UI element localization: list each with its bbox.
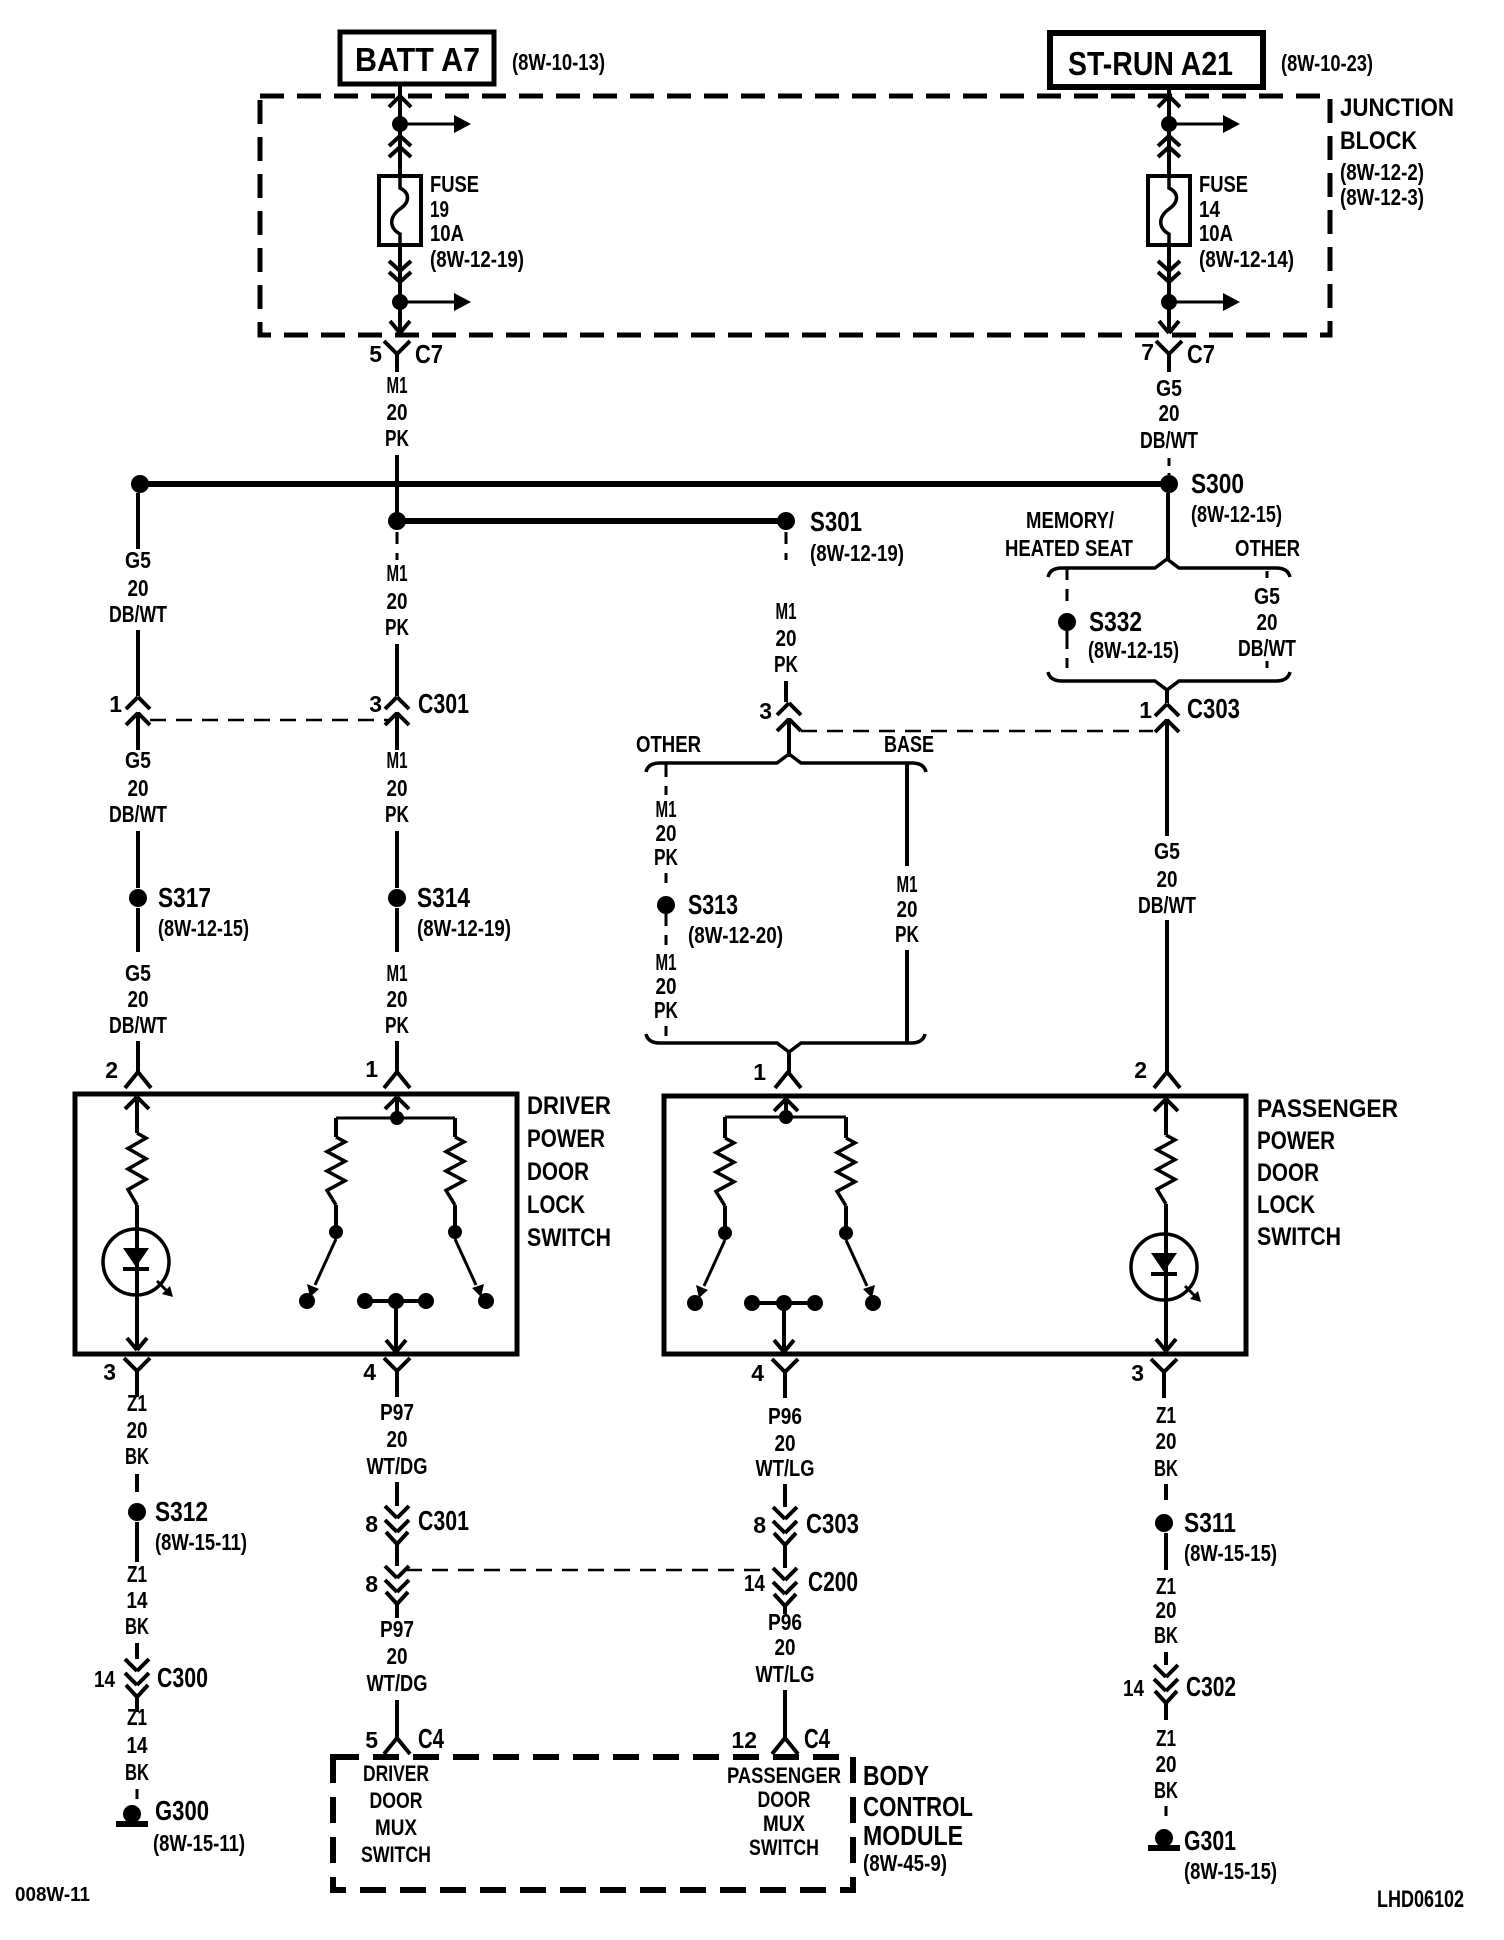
svg-text:G5: G5 — [1254, 583, 1280, 609]
svg-text:(8W-12-19): (8W-12-19) — [810, 540, 904, 566]
svg-text:BK: BK — [125, 1759, 149, 1785]
svg-text:(8W-12-15): (8W-12-15) — [1088, 637, 1179, 663]
svg-text:BODY: BODY — [863, 1760, 929, 1791]
svg-text:C302: C302 — [1186, 1671, 1236, 1702]
svg-text:CONTROL: CONTROL — [863, 1791, 973, 1822]
svg-text:P96: P96 — [768, 1609, 802, 1635]
svg-text:M1: M1 — [387, 747, 408, 773]
svg-text:BATT A7: BATT A7 — [355, 41, 480, 78]
svg-text:20: 20 — [897, 896, 918, 922]
svg-text:8: 8 — [365, 1511, 378, 1537]
svg-text:20: 20 — [128, 775, 149, 801]
svg-text:2: 2 — [105, 1057, 118, 1083]
svg-text:Z1: Z1 — [127, 1561, 147, 1587]
svg-text:Z1: Z1 — [1156, 1573, 1176, 1599]
svg-text:BK: BK — [1154, 1622, 1178, 1648]
svg-text:Z1: Z1 — [127, 1704, 147, 1730]
svg-text:(8W-12-20): (8W-12-20) — [688, 922, 783, 948]
svg-text:14: 14 — [1199, 196, 1220, 222]
svg-text:S312: S312 — [155, 1496, 208, 1527]
svg-text:M1: M1 — [656, 949, 677, 975]
svg-text:2: 2 — [1134, 1057, 1147, 1083]
svg-text:PASSENGER: PASSENGER — [1257, 1095, 1398, 1123]
svg-text:SWITCH: SWITCH — [361, 1842, 431, 1867]
svg-text:14: 14 — [744, 1570, 765, 1596]
svg-text:10A: 10A — [1199, 220, 1233, 246]
svg-text:M1: M1 — [897, 871, 918, 897]
svg-text:4: 4 — [363, 1359, 376, 1385]
svg-text:DOOR: DOOR — [527, 1158, 589, 1186]
svg-text:PK: PK — [385, 425, 409, 451]
svg-text:WT/LG: WT/LG — [756, 1661, 815, 1687]
svg-text:(8W-15-11): (8W-15-11) — [155, 1529, 247, 1555]
svg-text:G5: G5 — [1156, 375, 1182, 401]
svg-text:PK: PK — [654, 997, 678, 1023]
svg-text:LHD06102: LHD06102 — [1377, 1886, 1464, 1913]
svg-text:S332: S332 — [1089, 606, 1142, 637]
svg-text:20: 20 — [776, 625, 797, 651]
svg-text:OTHER: OTHER — [1235, 535, 1300, 561]
svg-text:20: 20 — [775, 1634, 796, 1660]
svg-text:BK: BK — [1154, 1777, 1178, 1803]
svg-text:20: 20 — [1156, 1597, 1177, 1623]
svg-text:C301: C301 — [418, 1505, 469, 1536]
svg-text:C301: C301 — [418, 688, 469, 719]
svg-text:S317: S317 — [158, 882, 211, 913]
svg-text:Z1: Z1 — [1156, 1725, 1176, 1751]
svg-text:3: 3 — [369, 691, 382, 717]
svg-text:C303: C303 — [806, 1508, 859, 1539]
svg-text:MEMORY/: MEMORY/ — [1026, 507, 1114, 533]
svg-text:SWITCH: SWITCH — [527, 1224, 611, 1252]
svg-text:12: 12 — [731, 1727, 757, 1753]
svg-text:20: 20 — [656, 973, 677, 999]
svg-text:BASE: BASE — [884, 731, 934, 757]
svg-text:1: 1 — [753, 1059, 766, 1085]
svg-text:G5: G5 — [1154, 838, 1180, 864]
svg-text:8: 8 — [365, 1571, 378, 1597]
svg-text:DB/WT: DB/WT — [1238, 635, 1296, 661]
svg-text:PK: PK — [385, 1012, 409, 1038]
svg-text:Z1: Z1 — [127, 1390, 147, 1416]
svg-text:8: 8 — [753, 1512, 766, 1538]
svg-text:BLOCK: BLOCK — [1340, 127, 1417, 155]
svg-text:20: 20 — [128, 986, 149, 1012]
svg-text:MODULE: MODULE — [863, 1820, 963, 1851]
svg-text:19: 19 — [430, 196, 449, 222]
svg-text:20: 20 — [387, 1643, 408, 1669]
svg-text:C4: C4 — [418, 1723, 444, 1754]
svg-text:(8W-10-13): (8W-10-13) — [512, 49, 605, 75]
svg-text:JUNCTION: JUNCTION — [1340, 94, 1454, 122]
svg-text:20: 20 — [1156, 1751, 1177, 1777]
svg-text:DB/WT: DB/WT — [1140, 427, 1198, 453]
svg-text:PK: PK — [385, 614, 409, 640]
svg-text:DOOR: DOOR — [758, 1787, 811, 1812]
svg-text:20: 20 — [1156, 1428, 1177, 1454]
svg-text:20: 20 — [387, 1426, 408, 1452]
svg-text:DB/WT: DB/WT — [109, 801, 167, 827]
svg-text:7: 7 — [1141, 339, 1154, 365]
svg-text:G5: G5 — [125, 547, 151, 573]
svg-text:(8W-45-9): (8W-45-9) — [863, 1850, 947, 1876]
svg-text:Z1: Z1 — [1156, 1402, 1176, 1428]
svg-text:C4: C4 — [804, 1723, 830, 1754]
svg-text:20: 20 — [1257, 609, 1278, 635]
svg-text:PK: PK — [385, 801, 409, 827]
svg-text:20: 20 — [775, 1430, 796, 1456]
svg-text:MUX: MUX — [763, 1811, 805, 1836]
svg-text:008W-11: 008W-11 — [15, 1884, 90, 1906]
svg-text:(8W-12-14): (8W-12-14) — [1199, 246, 1294, 272]
svg-text:(8W-12-2): (8W-12-2) — [1340, 159, 1424, 185]
svg-text:20: 20 — [387, 588, 408, 614]
svg-text:C200: C200 — [808, 1566, 858, 1597]
svg-text:(8W-12-3): (8W-12-3) — [1340, 184, 1424, 210]
svg-text:OTHER: OTHER — [636, 731, 701, 757]
svg-text:FUSE: FUSE — [1199, 171, 1248, 197]
svg-text:S313: S313 — [688, 889, 738, 920]
svg-text:(8W-15-15): (8W-15-15) — [1184, 1858, 1277, 1884]
svg-text:C300: C300 — [157, 1662, 208, 1693]
svg-text:P97: P97 — [380, 1616, 414, 1642]
svg-text:1: 1 — [109, 691, 122, 717]
svg-text:ST-RUN A21: ST-RUN A21 — [1068, 45, 1233, 82]
svg-text:DB/WT: DB/WT — [109, 601, 167, 627]
svg-text:(8W-15-15): (8W-15-15) — [1184, 1540, 1277, 1566]
svg-text:C7: C7 — [415, 339, 443, 369]
svg-text:MUX: MUX — [375, 1815, 417, 1840]
svg-text:POWER: POWER — [527, 1125, 605, 1153]
svg-text:LOCK: LOCK — [527, 1191, 585, 1219]
svg-text:LOCK: LOCK — [1257, 1191, 1315, 1219]
svg-text:(8W-12-15): (8W-12-15) — [1191, 501, 1282, 527]
svg-text:HEATED SEAT: HEATED SEAT — [1005, 535, 1133, 561]
svg-text:14: 14 — [127, 1732, 148, 1758]
svg-text:4: 4 — [751, 1360, 764, 1386]
svg-text:M1: M1 — [656, 796, 677, 822]
svg-text:SWITCH: SWITCH — [1257, 1223, 1341, 1251]
svg-text:10A: 10A — [430, 220, 464, 246]
svg-text:M1: M1 — [776, 598, 797, 624]
svg-text:M1: M1 — [387, 560, 408, 586]
svg-text:PASSENGER: PASSENGER — [727, 1763, 841, 1788]
svg-text:14: 14 — [1123, 1675, 1144, 1701]
svg-text:SWITCH: SWITCH — [749, 1835, 819, 1860]
svg-text:PK: PK — [654, 844, 678, 870]
svg-text:(8W-12-15): (8W-12-15) — [158, 915, 249, 941]
svg-text:20: 20 — [387, 986, 408, 1012]
svg-text:20: 20 — [656, 820, 677, 846]
svg-text:G300: G300 — [155, 1795, 209, 1826]
svg-text:S300: S300 — [1191, 468, 1244, 499]
svg-text:G5: G5 — [125, 960, 151, 986]
svg-text:1: 1 — [365, 1056, 378, 1082]
svg-text:5: 5 — [369, 341, 382, 367]
svg-text:S311: S311 — [1184, 1507, 1236, 1538]
svg-text:20: 20 — [1157, 866, 1178, 892]
svg-text:3: 3 — [1131, 1360, 1144, 1386]
svg-text:3: 3 — [759, 698, 772, 724]
svg-text:14: 14 — [94, 1666, 115, 1692]
svg-text:M1: M1 — [387, 960, 408, 986]
svg-text:DB/WT: DB/WT — [109, 1012, 167, 1038]
svg-text:DRIVER: DRIVER — [363, 1761, 429, 1786]
svg-text:S301: S301 — [810, 506, 862, 537]
svg-text:WT/LG: WT/LG — [756, 1455, 815, 1481]
svg-text:P96: P96 — [768, 1403, 802, 1429]
svg-text:S314: S314 — [417, 882, 470, 913]
svg-text:5: 5 — [365, 1727, 378, 1753]
svg-text:C7: C7 — [1187, 339, 1215, 369]
svg-text:BK: BK — [125, 1613, 149, 1639]
svg-text:(8W-15-11): (8W-15-11) — [153, 1830, 245, 1856]
svg-text:PK: PK — [895, 921, 919, 947]
svg-text:WT/DG: WT/DG — [367, 1453, 428, 1479]
svg-text:14: 14 — [127, 1587, 148, 1613]
svg-text:PK: PK — [774, 651, 798, 677]
svg-text:3: 3 — [103, 1359, 116, 1385]
svg-text:DB/WT: DB/WT — [1138, 892, 1196, 918]
svg-text:P97: P97 — [380, 1399, 414, 1425]
svg-text:(8W-12-19): (8W-12-19) — [430, 246, 524, 272]
svg-text:M1: M1 — [387, 372, 408, 398]
svg-text:20: 20 — [127, 1417, 148, 1443]
svg-text:BK: BK — [125, 1443, 149, 1469]
svg-text:(8W-10-23): (8W-10-23) — [1281, 50, 1373, 76]
svg-text:(8W-12-19): (8W-12-19) — [417, 915, 511, 941]
svg-text:20: 20 — [1159, 400, 1180, 426]
svg-text:20: 20 — [387, 775, 408, 801]
svg-text:POWER: POWER — [1257, 1127, 1335, 1155]
svg-text:DOOR: DOOR — [370, 1788, 423, 1813]
svg-text:G5: G5 — [125, 747, 151, 773]
svg-text:20: 20 — [387, 399, 408, 425]
svg-text:WT/DG: WT/DG — [367, 1670, 428, 1696]
svg-text:DOOR: DOOR — [1257, 1159, 1319, 1187]
svg-text:BK: BK — [1154, 1455, 1178, 1481]
svg-text:C303: C303 — [1187, 693, 1240, 724]
svg-text:G301: G301 — [1184, 1825, 1236, 1856]
svg-text:20: 20 — [128, 575, 149, 601]
svg-text:1: 1 — [1139, 697, 1152, 723]
svg-text:DRIVER: DRIVER — [527, 1092, 611, 1120]
svg-text:FUSE: FUSE — [430, 171, 479, 197]
